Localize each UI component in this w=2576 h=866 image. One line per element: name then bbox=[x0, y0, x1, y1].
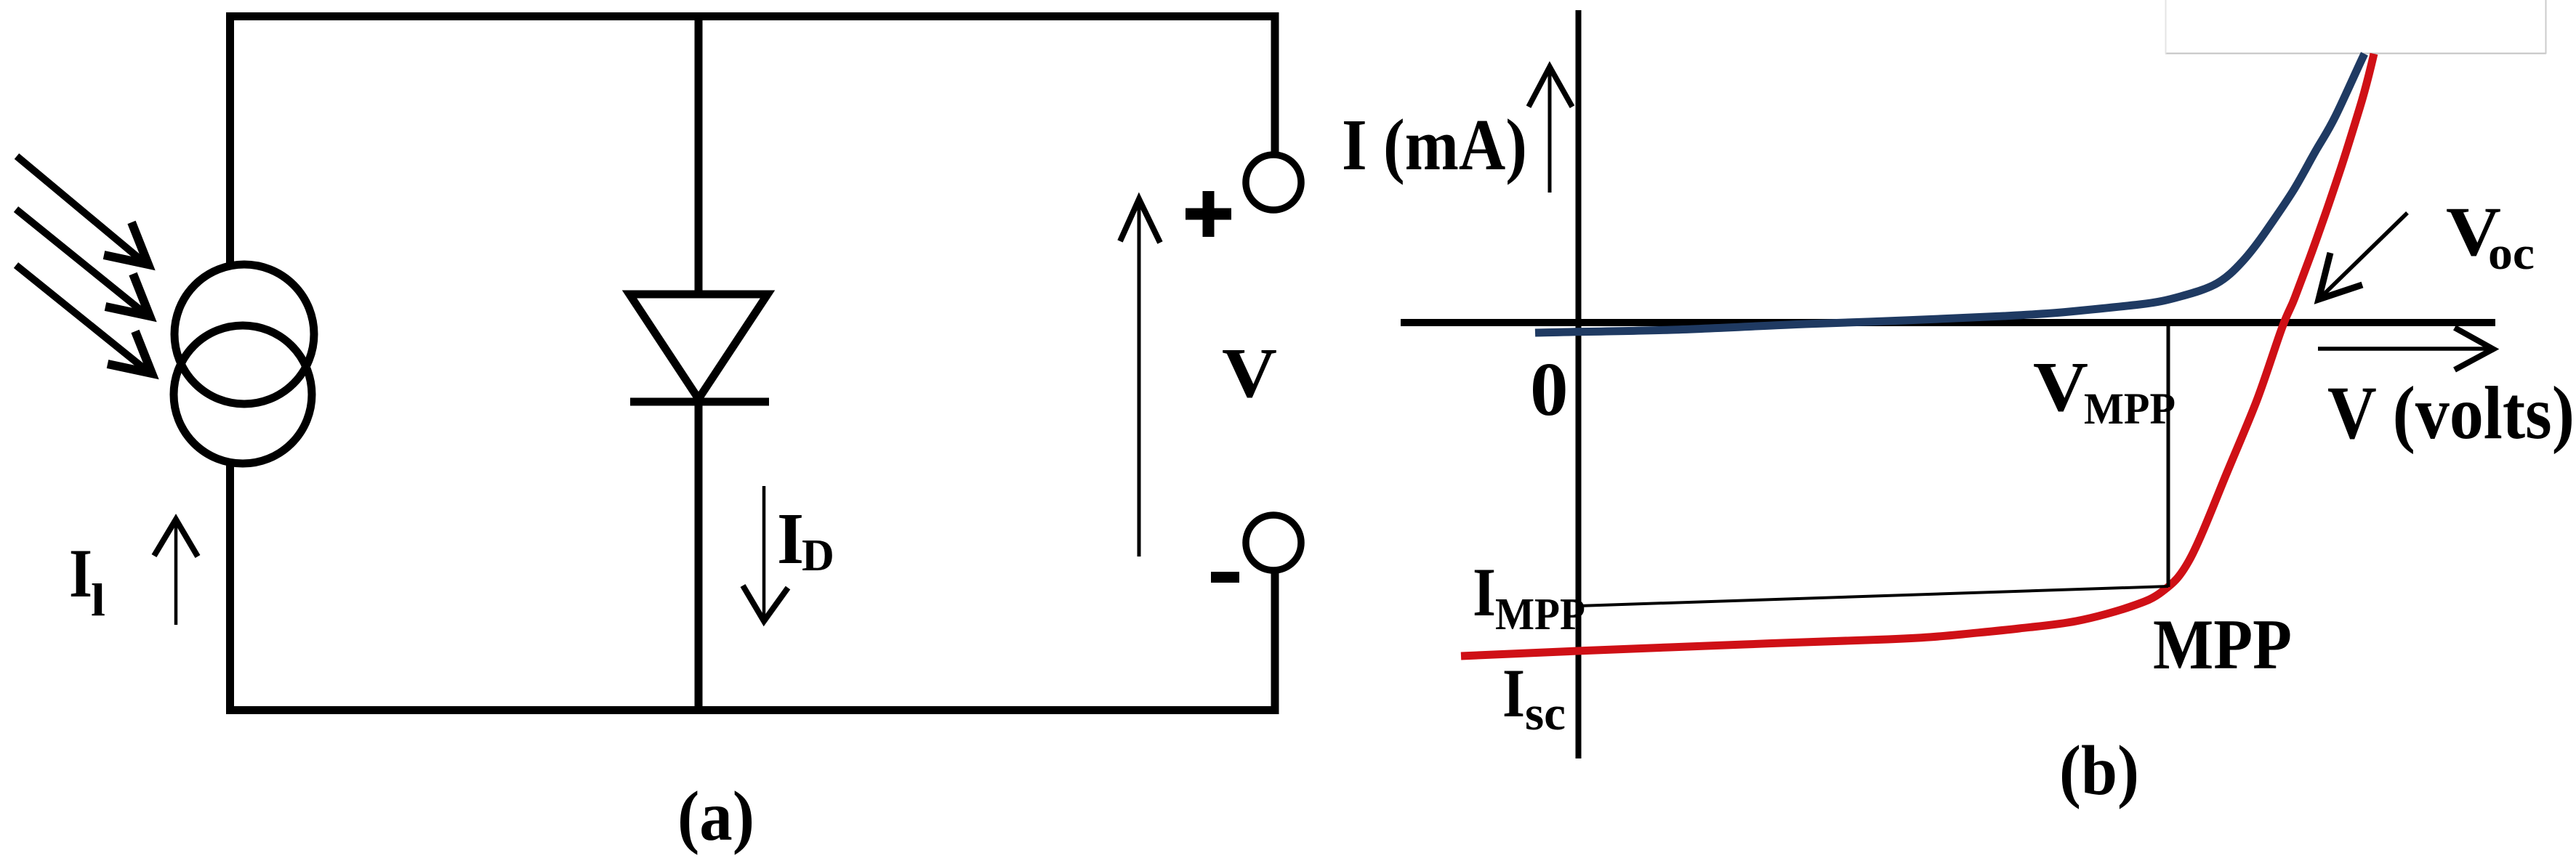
label V (volts) bbox=[2327, 371, 2575, 455]
svg-text:sc: sc bbox=[1525, 687, 1566, 740]
current source I_l (two overlapping circles) bbox=[174, 264, 314, 464]
wire left upper segment bbox=[226, 12, 234, 267]
light arrow 1 bbox=[17, 156, 148, 264]
wire top bbox=[226, 12, 1279, 20]
terminal + (circle) bbox=[1246, 155, 1301, 210]
svg-text:MPP: MPP bbox=[1495, 590, 1585, 639]
V_oc pointer arrow bbox=[2319, 213, 2407, 299]
label 0 (origin) bbox=[1530, 347, 1569, 432]
I_MPP level line bbox=[1579, 586, 2168, 606]
diode cathode bar bbox=[630, 398, 769, 406]
label I_MPP bbox=[1473, 554, 1585, 639]
svg-text:l: l bbox=[91, 574, 105, 626]
label (b) bbox=[2059, 732, 2139, 810]
label I_l bbox=[69, 535, 105, 626]
plus sign bbox=[1186, 191, 1231, 237]
wire middle branch upper (to diode anode) bbox=[695, 12, 703, 298]
svg-text:MPP: MPP bbox=[2153, 605, 2292, 684]
svg-text:I: I bbox=[69, 535, 92, 612]
svg-text:V: V bbox=[2033, 348, 2088, 426]
light arrow 2 bbox=[16, 209, 150, 316]
blue dark-current curve bbox=[1535, 54, 2364, 333]
svg-text:I (mA): I (mA) bbox=[1342, 104, 1527, 185]
svg-text:V (volts): V (volts) bbox=[2327, 371, 2575, 455]
V_MPP drop line bbox=[2167, 323, 2170, 587]
red illuminated-current curve bbox=[1461, 54, 2374, 656]
svg-text:MPP: MPP bbox=[2084, 385, 2175, 434]
arrow V (voltage reference) bbox=[1120, 199, 1160, 557]
label I_D bbox=[777, 498, 834, 580]
label I_sc bbox=[1502, 655, 1566, 740]
x-axis (voltage axis) bbox=[1401, 319, 2495, 326]
label V_oc bbox=[2446, 193, 2535, 280]
x-axis right arrow bbox=[2318, 328, 2493, 370]
svg-text:I: I bbox=[1473, 554, 1496, 631]
minus sign bbox=[1211, 572, 1239, 583]
label (a) bbox=[677, 777, 754, 855]
wire bottom bbox=[226, 706, 1279, 714]
wire right upper segment (to + terminal) bbox=[1271, 12, 1279, 155]
svg-text:I: I bbox=[777, 498, 804, 579]
svg-text:0: 0 bbox=[1530, 347, 1569, 432]
light arrow 3 bbox=[16, 265, 152, 373]
terminal - (circle) bbox=[1246, 515, 1301, 570]
label V_MPP bbox=[2033, 348, 2175, 434]
arrow I_l (source current) bbox=[154, 519, 198, 625]
svg-text:D: D bbox=[802, 531, 834, 580]
svg-text:(b): (b) bbox=[2059, 732, 2139, 810]
wire left lower segment bbox=[226, 461, 234, 714]
arrow I_D (current through diode) bbox=[743, 486, 788, 621]
svg-text:(a): (a) bbox=[677, 777, 754, 855]
svg-text:V: V bbox=[1222, 334, 1277, 412]
y-axis up arrow bbox=[1529, 67, 1572, 193]
label MPP (maximum power point) bbox=[2153, 605, 2292, 684]
svg-text:I: I bbox=[1502, 655, 1525, 732]
faint clip box top-right bbox=[2165, 0, 2546, 54]
wire right lower segment (from - terminal) bbox=[1271, 572, 1279, 714]
label V bbox=[1222, 334, 1277, 412]
diode D (triangle) bbox=[629, 294, 768, 399]
y-axis (current axis) bbox=[1576, 10, 1582, 758]
wire middle branch lower (from diode cathode) bbox=[695, 399, 703, 714]
label I (mA) bbox=[1342, 104, 1527, 185]
svg-text:oc: oc bbox=[2488, 227, 2535, 280]
